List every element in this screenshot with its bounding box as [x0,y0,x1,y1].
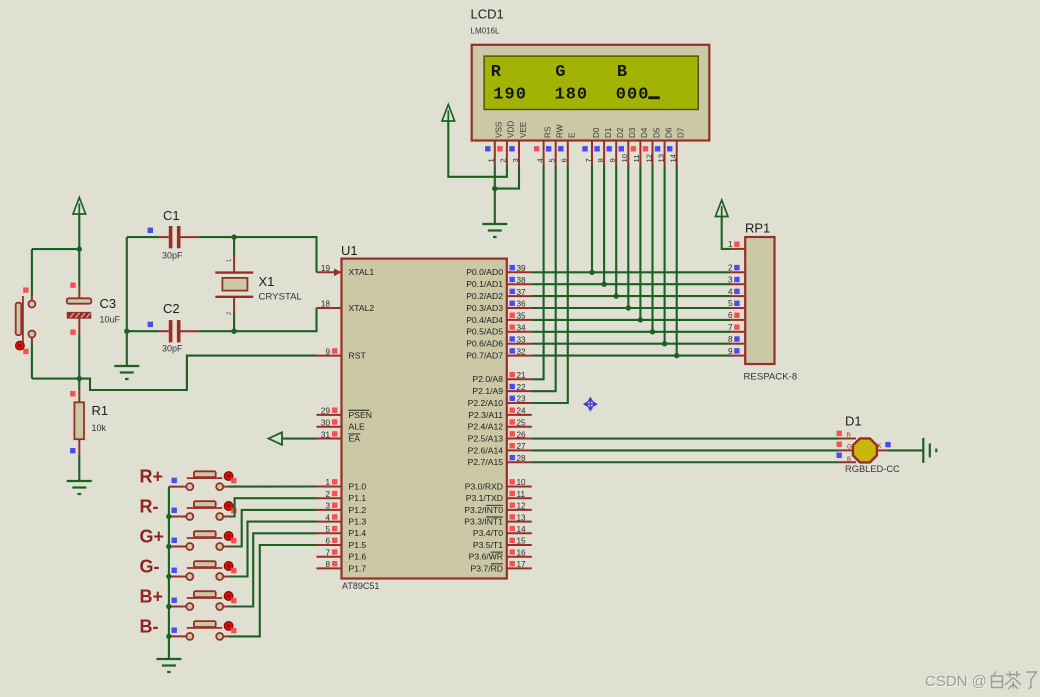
svg-text:6: 6 [325,537,330,546]
U1 pin 17 P3.7/RD [507,567,532,569]
U1 pin 10 P3.0/RXD [507,486,532,488]
svg-text:R: R [491,63,502,82]
U1 pin 25 P2.4/A12 [507,426,532,428]
U1 pin 14 P3.4/T0 [507,532,532,534]
LCD pin 10 [627,141,629,166]
svg-text:9: 9 [728,347,733,356]
svg-text:LM016L: LM016L [471,27,500,36]
svg-text:9: 9 [504,86,514,105]
U1 pin 26 P2.5/A13 [507,438,532,440]
LCD pin 8 [603,141,605,166]
wire D3 vertical [627,166,629,309]
node XTAL2 junction [231,329,236,334]
node rail junction [166,634,171,639]
svg-text:R1: R1 [92,403,109,418]
wire EA [282,437,317,439]
svg-text:G+: G+ [140,527,165,547]
wire G- to P1.3 [229,522,317,577]
svg-text:25: 25 [517,418,527,427]
U1 pin 24 P2.3/A11 [507,414,532,416]
LCD pin 7 [591,141,593,166]
svg-text:7: 7 [584,158,593,162]
svg-text:35: 35 [517,312,527,321]
svg-text:P3.3/INT1: P3.3/INT1 [464,517,503,527]
svg-text:P2.6/A14: P2.6/A14 [468,445,504,455]
svg-text:RST: RST [349,351,367,361]
wire X1 pin1 [233,237,235,255]
U1 pin 3 P1.2 [317,509,342,511]
ground crystal rail [114,366,139,379]
ground R1 [67,481,92,494]
svg-text:P2.2/A10: P2.2/A10 [468,398,504,408]
wire D2 vertical [615,166,617,297]
svg-text:P1.1: P1.1 [349,493,367,503]
power VDD arrow [442,105,455,122]
U1 pin 11 P3.1/TXD [507,497,532,499]
U1 pin 21 P2.0/A8 [507,378,532,380]
svg-text:XTAL1: XTAL1 [349,267,375,277]
U1 pin 39 P0.0/AD0 [507,271,532,273]
svg-text:39: 39 [517,264,527,273]
svg-text:B: B [617,63,627,82]
svg-text:34: 34 [517,324,527,333]
wire D7 vertical [676,166,678,356]
U1 pin 6 P1.5 [317,544,342,546]
svg-text:12: 12 [517,502,527,511]
power RP1 [715,200,728,217]
U1 pin 19 XTAL1 [317,271,342,273]
wire VEE [495,166,519,189]
svg-text:R: R [847,433,852,439]
wire C1 left [127,236,159,238]
svg-text:VSS: VSS [495,121,504,138]
svg-text:36: 36 [517,300,527,309]
svg-text:4: 4 [535,158,544,162]
svg-text:VDD: VDD [507,121,516,138]
svg-text:P1.5: P1.5 [349,540,367,550]
svg-text:0: 0 [638,86,648,105]
svg-text:5: 5 [325,525,330,534]
svg-text:D4: D4 [640,127,649,138]
svg-text:P0.3/AD3: P0.3/AD3 [466,303,503,313]
svg-text:28: 28 [517,454,527,463]
node D0 junction [589,270,594,275]
RP1 pin 5 [730,307,745,309]
RP1 pin 2 [730,271,745,273]
push button R- [169,516,186,518]
svg-text:C3: C3 [100,296,117,311]
svg-text:G-: G- [140,557,160,577]
svg-text:13: 13 [517,513,527,522]
U1 pin 13 P3.3/INT1 [507,521,532,523]
U1 pin 22 P2.1/A9 [507,390,532,392]
svg-text:P2.7/A15: P2.7/A15 [468,457,504,467]
wire D0 vertical [591,166,593,273]
RP1 pin 7 [730,331,745,333]
wire XTAL2 net [234,308,316,331]
wire C2 to X1 node [199,330,234,332]
svg-text:23: 23 [517,395,527,404]
svg-text:8: 8 [596,158,605,162]
LCD pin 9 [615,141,617,166]
svg-text:P2.3/A11: P2.3/A11 [468,410,503,420]
capacitor C3 [78,286,80,298]
node C2 rail junction [124,329,129,334]
LCD pin 3 [518,141,520,166]
svg-text:P0.2/AD2: P0.2/AD2 [466,291,503,301]
svg-text:VEE: VEE [519,121,528,138]
svg-text:32: 32 [517,347,527,356]
LED D1 [839,438,857,440]
svg-text:AT89C51: AT89C51 [342,581,379,591]
svg-text:37: 37 [517,288,527,297]
LCD pin 1 [494,141,496,166]
node D5 junction [650,329,655,334]
push button G+ [169,546,186,548]
LCD LCD1 body [472,45,710,141]
wire R+ to P1.0 [229,485,317,487]
svg-text:0: 0 [627,86,637,105]
wire D1 vertical [603,166,605,285]
svg-text:38: 38 [517,276,527,285]
svg-text:1: 1 [493,86,503,105]
svg-text:P1.4: P1.4 [349,528,367,538]
svg-text:P3.6/WR: P3.6/WR [469,552,503,562]
wire P2.7 to LED B [532,461,839,463]
U1 pin 37 P0.2/AD2 [507,295,532,297]
svg-text:18: 18 [321,300,331,309]
svg-text:22: 22 [517,383,527,392]
svg-text:29: 29 [321,407,331,416]
U1 pin 27 P2.6/A14 [507,449,532,451]
wire RP1 pin1 power [722,217,731,249]
svg-text:B-: B- [140,616,159,636]
svg-text:6: 6 [728,311,733,320]
node D2 junction [614,293,619,298]
svg-text:RESPACK-8: RESPACK-8 [744,372,798,383]
resistor pack RP1 body [745,237,774,364]
svg-text:12: 12 [644,154,653,162]
svg-text:0: 0 [616,86,626,105]
svg-text:30: 30 [321,418,331,427]
svg-text:17: 17 [517,560,527,569]
LCD pin 13 [664,141,666,166]
node rail junction [166,574,171,579]
svg-text:E: E [568,132,577,138]
svg-text:P0.1/AD1: P0.1/AD1 [466,279,503,289]
push button B+ [169,606,186,608]
LCD pin 5 [555,141,557,166]
wire E to P2.2 [532,166,568,404]
svg-text:27: 27 [517,442,527,451]
ground LCD [482,224,507,237]
svg-text:0: 0 [577,86,587,105]
U1 pin 2 P1.1 [317,497,342,499]
wire to button top [32,248,79,250]
svg-text:10uF: 10uF [100,315,121,325]
svg-text:X1: X1 [259,274,275,289]
wire P2.6 to LED G [532,449,839,451]
wire button rail [168,487,170,659]
U1 pin 32 P0.7/AD7 [507,355,532,357]
node VSS-VEE junction [492,186,497,191]
wire P0.6 to RP1 pin 8 [532,343,731,345]
RP1 pin 3 [730,283,745,285]
wire P0.3 to RP1 pin 5 [532,307,731,309]
svg-text:D0: D0 [592,127,601,138]
svg-text:4: 4 [728,287,733,296]
wire D5 vertical [651,166,653,332]
wire D6 vertical [664,166,666,344]
svg-text:D7: D7 [677,127,686,138]
wire RS to P2.0 [532,166,544,380]
microcontroller U1 body [342,259,507,579]
svg-text:10k: 10k [92,423,107,433]
LCD pin 4 [543,141,545,166]
svg-text:P3.2/INT0: P3.2/INT0 [464,505,503,515]
svg-text:9: 9 [325,347,330,356]
ground LED (rotated) [923,438,936,463]
svg-text:21: 21 [517,371,527,380]
svg-text:10: 10 [620,154,629,162]
U1 pin 31 EA [317,438,342,440]
RP1 pin 8 [730,343,745,345]
svg-text:CRYSTAL: CRYSTAL [259,292,303,303]
U1 pin 16 P3.6/WR [507,556,532,558]
node rail junction [166,514,171,519]
node rail junction [166,604,171,609]
svg-text:33: 33 [517,335,527,344]
U1 pin 8 P1.7 [317,567,342,569]
wire button top vertical [31,249,33,296]
wire P0.7 to RP1 pin 9 [532,355,731,357]
wire P0.1 to RP1 pin 3 [532,283,731,285]
LCD pin 12 [652,141,654,166]
svg-text:B: B [847,457,851,463]
wire P0.2 to RP1 pin 4 [532,295,731,297]
origin marker [584,397,598,411]
wire G+ to P1.2 [229,510,317,547]
U1 pin 35 P0.4/AD4 [507,319,532,321]
wire RST net [79,356,316,390]
svg-text:P3.0/RXD: P3.0/RXD [465,481,503,491]
wire VDD to power [448,121,507,177]
svg-text:1: 1 [728,240,733,249]
svg-text:G: G [847,445,852,451]
svg-text:0: 0 [516,86,526,105]
svg-text:2: 2 [325,490,330,499]
svg-text:5: 5 [548,158,557,162]
wire C2 left [127,330,159,332]
svg-text:P3.1/TXD: P3.1/TXD [466,493,503,503]
LCD pin 2 [506,141,508,166]
wire P0.4 to RP1 pin 6 [532,319,731,321]
U1 pin 9 RST [317,355,342,357]
wire R- to P1.1 [229,498,317,516]
svg-text:P1.7: P1.7 [349,563,367,573]
wire P0.0 to RP1 pin 2 [532,271,731,273]
wire C3 bottom [78,334,80,379]
svg-text:P1.3: P1.3 [349,517,367,527]
svg-text:19: 19 [321,264,331,273]
push button R+ [169,486,186,488]
svg-text:8: 8 [728,335,733,344]
U1 pin 33 P0.6/AD6 [507,343,532,345]
svg-text:RP1: RP1 [745,221,770,236]
svg-text:P1.6: P1.6 [349,552,367,562]
LCD pin 6 [567,141,569,166]
svg-text:31: 31 [321,430,331,439]
wire P2.5 to LED R [532,437,839,439]
wire K [888,449,924,451]
svg-text:30pF: 30pF [162,344,183,354]
svg-text:B+: B+ [140,587,164,607]
wire D4 vertical [639,166,641,320]
svg-text:2: 2 [499,158,508,162]
U1 pin 36 P0.3/AD3 [507,307,532,309]
ground buttons [156,659,181,672]
svg-text:RS: RS [543,126,552,138]
wire P0.5 to RP1 pin 7 [532,331,731,333]
svg-text:26: 26 [517,430,527,439]
LCD screen [484,56,698,109]
wire X1 pin2 [233,313,235,331]
U1 pin 5 P1.4 [317,532,342,534]
svg-text:2: 2 [728,264,733,273]
wire R1 bottom [78,455,80,481]
svg-text:16: 16 [517,548,527,557]
svg-text:D3: D3 [628,127,637,138]
svg-text:P0.4/AD4: P0.4/AD4 [466,315,503,325]
push button reset [31,296,33,300]
svg-text:ALE: ALE [349,422,366,432]
wire R1 top [78,379,80,390]
svg-text:P3.5/T1: P3.5/T1 [473,540,503,550]
U1 pin 34 P0.5/AD5 [507,331,532,333]
svg-text:RGBLED-CC: RGBLED-CC [845,464,900,474]
wire XTAL1 net [234,237,316,272]
node XTAL1 junction [231,234,236,239]
U1 pin 28 P2.7/A15 [507,461,532,463]
U1 pin 4 P1.3 [317,521,342,523]
svg-text:P2.5/A13: P2.5/A13 [468,433,504,443]
wire power to C3 [78,214,80,286]
svg-text:K: K [878,444,882,450]
svg-text:14: 14 [669,154,678,162]
LCD pin 11 [639,141,641,166]
svg-text:XTAL2: XTAL2 [349,303,375,313]
node D6 junction [662,341,667,346]
push button B- [169,635,186,637]
wire B+ to P1.4 [229,533,317,606]
svg-text:14: 14 [517,525,527,534]
svg-text:24: 24 [517,407,527,416]
svg-text:PSEN: PSEN [349,410,372,420]
svg-text:P0.5/AD5: P0.5/AD5 [466,327,503,337]
U1 pin 23 P2.2/A10 [507,402,532,404]
svg-text:8: 8 [325,560,330,569]
node rail junction [166,544,171,549]
svg-text:6: 6 [560,158,569,162]
svg-text:5: 5 [728,299,733,308]
svg-text:D2: D2 [616,127,625,138]
node D3 junction [626,305,631,310]
node D1 junction [601,282,606,287]
wire button to R1 node [32,378,79,380]
svg-text:C1: C1 [163,208,180,223]
svg-text:P3.7/RD: P3.7/RD [471,563,503,573]
svg-text:D6: D6 [664,127,673,138]
RP1 pin 4 [730,295,745,297]
svg-text:P0.6/AD6: P0.6/AD6 [466,339,503,349]
svg-text:P0.0/AD0: P0.0/AD0 [466,267,503,277]
svg-text:7: 7 [325,548,330,557]
svg-text:D5: D5 [652,127,661,138]
svg-text:D1: D1 [604,127,613,138]
svg-text:U1: U1 [341,243,358,258]
svg-text:P0.7/AD7: P0.7/AD7 [466,351,503,361]
svg-text:P3.4/T0: P3.4/T0 [473,528,503,538]
svg-text:P1.0: P1.0 [349,481,367,491]
U1 pin 7 P1.6 [317,556,342,558]
svg-text:11: 11 [517,490,526,499]
svg-text:1: 1 [487,158,496,162]
svg-text:30pF: 30pF [162,251,183,261]
svg-text:P2.4/A12: P2.4/A12 [468,422,504,432]
U1 pin 15 P3.5/T1 [507,544,532,546]
wire C1 to X1 node [199,236,234,238]
push button G- [169,576,186,578]
svg-text:P2.1/A9: P2.1/A9 [472,386,503,396]
svg-text:1: 1 [554,86,564,105]
wire RW to P2.1 [532,166,556,392]
svg-text:D1: D1 [845,414,862,429]
svg-text:G: G [555,63,565,82]
svg-text:7: 7 [728,323,733,332]
svg-text:P1.2: P1.2 [349,505,367,515]
svg-text:3: 3 [728,275,733,284]
svg-text:R-: R- [140,497,159,517]
LCD pin 14 [676,141,678,166]
svg-text:4: 4 [325,513,330,522]
U1 pin 30 ALE [317,426,342,428]
node D4 junction [638,317,643,322]
U1 pin 18 XTAL2 [317,307,342,309]
svg-text:3: 3 [325,502,330,511]
wire B- to P1.5 [229,545,317,636]
U1 pin 29 PSEN [317,414,342,416]
svg-text:3: 3 [511,158,520,162]
U1 pin 38 P0.1/AD1 [507,283,532,285]
wire cap ground rail [126,237,128,366]
svg-text:P2.0/A8: P2.0/A8 [472,374,503,384]
svg-text:LCD1: LCD1 [471,7,504,22]
svg-text:15: 15 [517,537,527,546]
wire VSS to ground [494,166,496,225]
svg-text:11: 11 [632,155,641,163]
RP1 pin 6 [730,319,745,321]
svg-text:EA: EA [349,433,361,443]
power reset rail [73,198,86,215]
svg-text:8: 8 [566,86,576,105]
node RST junction [77,376,82,381]
svg-text:10: 10 [517,478,527,487]
svg-text:R+: R+ [140,467,164,487]
svg-text:13: 13 [656,154,665,162]
svg-text:CSDN @: CSDN @ [925,673,987,690]
RP1 pin 9 [730,355,745,357]
node D7 junction [674,353,679,358]
